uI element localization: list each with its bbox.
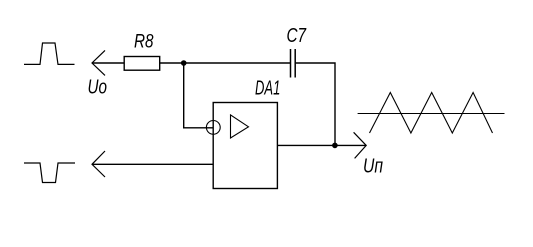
resistor R8 xyxy=(124,57,160,71)
wire (arrow to R8) xyxy=(92,62,124,64)
svg-text:DA1: DA1 xyxy=(255,78,280,100)
op-amp DA1 triangle symbol xyxy=(231,115,249,138)
inverted pulse waveform (bottom left) xyxy=(24,163,75,183)
arrow (bottom output, pointing left) xyxy=(92,151,105,177)
capacitor C7 xyxy=(291,49,296,78)
wire (op-amp output to Uп arrow) xyxy=(277,144,366,146)
triangle wave axis line xyxy=(358,113,505,115)
op-amp DA1 (body) xyxy=(213,103,277,189)
wire (R8 to C7) xyxy=(160,62,291,64)
svg-text:R8: R8 xyxy=(134,31,154,52)
svg-text:C7: C7 xyxy=(287,25,307,47)
node (junction at R8 output) xyxy=(181,60,187,66)
svg-text:Uo: Uo xyxy=(88,76,108,98)
arrow (output Uп, pointing right) xyxy=(354,132,367,158)
input pulse waveform (top left) xyxy=(24,43,75,64)
wire (feedback: junction down and right to inverting input) xyxy=(184,63,214,128)
node (output junction) xyxy=(332,143,338,149)
wire (C7 right plate to output node) xyxy=(295,63,335,145)
svg-text:Uп: Uп xyxy=(363,156,383,178)
wire (non-inverting input, from left arrow) xyxy=(92,163,213,165)
op-amp DA1 inverting input circle xyxy=(206,121,220,135)
arrow (output to Uo, pointing left) xyxy=(92,50,105,75)
triangle wave xyxy=(370,93,493,134)
